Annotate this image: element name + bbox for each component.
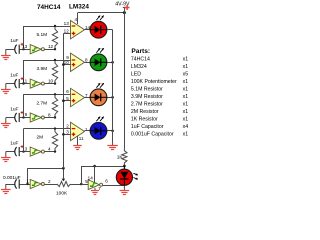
node (cathode bus junction)	[111, 61, 114, 64]
wire supply to 4V-9V node	[78, 12, 125, 14]
svg-text:13: 13	[64, 21, 70, 26]
ground (LED D5 cathode)	[123, 186, 125, 191]
potentiometer 100K	[57, 181, 71, 186]
svg-text:LED: LED	[131, 71, 141, 77]
capacitor C3 1uF	[15, 113, 17, 122]
wire C2 to inverter input node	[19, 83, 30, 85]
svg-text:13: 13	[22, 44, 28, 49]
svg-text:1: 1	[85, 127, 88, 132]
svg-text:3.9M: 3.9M	[37, 66, 48, 72]
node (resistor top, stage 4)	[54, 127, 56, 129]
LED D5 (flicker)	[123, 166, 125, 172]
svg-text:1uF: 1uF	[10, 107, 18, 113]
wire buffer output to LED cathode	[103, 185, 125, 187]
wire cathode bus (vertical)	[112, 30, 114, 143]
svg-text:10: 10	[48, 79, 54, 84]
svg-text:1uF Capacitor: 1uF Capacitor	[131, 124, 164, 130]
wire bus to stage5 riser	[28, 168, 64, 170]
op-amp U2a (LM324)	[71, 21, 85, 39]
svg-text:12: 12	[64, 29, 70, 34]
svg-text:1uF: 1uF	[10, 141, 18, 147]
inverter U1c buffer (74HC14 pins 5-6)	[88, 180, 99, 190]
wire ground to C1	[6, 49, 15, 51]
wiper arrow (100K pot)	[63, 168, 65, 178]
svg-text:x1: x1	[183, 86, 189, 92]
op-amp U2d (LM324)	[71, 122, 85, 140]
wire op-amp output to LED	[85, 130, 91, 132]
wire + input bus (vertical)	[63, 33, 65, 168]
inverter U1d (74HC14)	[30, 147, 41, 156]
wire riser cap node to top wire (stage 3)	[23, 94, 25, 117]
ground (stage 3 cap)	[5, 118, 7, 124]
svg-text:3.9M Resistor: 3.9M Resistor	[131, 94, 163, 100]
emission arrows (D5)	[133, 173, 137, 175]
inverter U1c (74HC14)	[30, 113, 41, 122]
wire riser buffer input to LED feed wire	[81, 166, 83, 184]
svg-text:9: 9	[25, 112, 28, 117]
wire ground to C4	[6, 151, 15, 153]
resistor R5 1K	[122, 148, 127, 167]
wire inverter output to resistor (stage 3)	[44, 117, 55, 119]
svg-text:1: 1	[26, 179, 29, 184]
LED D1	[90, 21, 107, 38]
wire ground to C2	[6, 83, 15, 85]
wire inverter output to resistor (stage 2)	[44, 83, 55, 85]
node (resistor top, stage 3)	[54, 93, 56, 95]
svg-text:2: 2	[66, 123, 69, 128]
node (stage 3 cap node)	[22, 116, 24, 118]
wire inverter output to resistor (stage 1)	[44, 49, 55, 51]
LED D2	[90, 54, 107, 71]
svg-text:LM324: LM324	[69, 4, 89, 11]
wire LED cathode to bus	[107, 29, 113, 31]
node (resistor bottom, stage 1)	[54, 48, 56, 50]
svg-text:x1: x1	[183, 64, 189, 70]
svg-text:Parts:: Parts:	[131, 48, 150, 55]
svg-text:0.001uF Capacitor: 0.001uF Capacitor	[131, 131, 174, 137]
wire top feedback (stage 1) to op-amp	[24, 26, 71, 28]
svg-text:1K: 1K	[117, 154, 124, 160]
wire C3 to inverter input node	[19, 117, 30, 119]
node (stage 4 cap node)	[22, 150, 24, 152]
svg-text:11: 11	[22, 78, 27, 83]
op-amp U2b (LM324)	[71, 53, 85, 71]
svg-text:5.1M Resistor: 5.1M Resistor	[131, 86, 163, 92]
svg-text:4: 4	[48, 147, 51, 152]
svg-text:x1: x1	[183, 79, 189, 85]
node (stage 2 cap node)	[22, 82, 24, 84]
svg-text:x1: x1	[183, 56, 189, 62]
svg-text:6: 6	[105, 179, 108, 184]
node (buffer input junction)	[80, 183, 83, 186]
svg-text:x1: x1	[183, 131, 189, 137]
ground (LED cathode bus)	[112, 143, 114, 146]
wire pin14 stub	[94, 166, 96, 182]
wire ground to C3	[6, 117, 15, 119]
inverter U1f (74HC14)	[30, 179, 41, 188]
wire buffer input	[81, 184, 88, 186]
wire pot right to buffer input	[71, 184, 82, 186]
capacitor C2 1uF	[15, 79, 17, 88]
inverter U1a (74HC14)	[30, 45, 41, 54]
svg-text:74HC14: 74HC14	[37, 4, 61, 11]
node (resistor bottom, stage 4)	[54, 150, 56, 152]
resistor R3 2.7M	[52, 94, 57, 117]
svg-text:x4: x4	[183, 124, 189, 130]
wire LED cathode to bus	[107, 130, 113, 132]
node (resistor top, stage 2)	[54, 59, 56, 61]
svg-text:100K: 100K	[56, 191, 68, 197]
plus mark (supply polarity)	[125, 7, 130, 9]
inverter U1b (74HC14)	[30, 79, 41, 88]
svg-text:5.1M: 5.1M	[37, 32, 48, 38]
svg-text:12: 12	[48, 44, 54, 49]
resistor R1 5.1M	[52, 26, 57, 49]
node (stage 1 cap node)	[22, 48, 24, 50]
svg-text:2M: 2M	[37, 135, 44, 141]
svg-text:3: 3	[66, 130, 69, 135]
svg-text:2: 2	[48, 179, 51, 184]
svg-text:x1: x1	[183, 116, 189, 122]
wire riser cap node to top wire (stage 2)	[23, 60, 25, 84]
node (resistor bottom, stage 2)	[54, 82, 56, 84]
ground (stage 4 cap)	[5, 152, 7, 158]
svg-text:100K Potentiometer: 100K Potentiometer	[131, 79, 177, 85]
svg-text:3: 3	[25, 146, 28, 151]
supply node 4V-9V	[123, 11, 126, 14]
node (stage5 input)	[26, 183, 28, 185]
wire ground to C5	[6, 184, 15, 186]
svg-text:x1: x1	[183, 101, 189, 107]
svg-text:2.7M Resistor: 2.7M Resistor	[131, 101, 163, 107]
svg-text:2.7M: 2.7M	[37, 100, 48, 106]
node (pin14 supply tap)	[93, 165, 96, 168]
wire op-amp output to LED	[85, 29, 91, 31]
svg-text:4: 4	[74, 17, 77, 22]
wire riser bus to stage5 input	[27, 168, 29, 184]
wire pin4 stub	[77, 13, 79, 24]
wire inverter output to resistor (stage 4)	[44, 151, 55, 153]
ground (stage 1 cap)	[5, 49, 7, 55]
emission arrows (D4)	[96, 117, 100, 122]
resistor R4 2M	[52, 129, 57, 152]
svg-text:x5: x5	[183, 71, 189, 77]
wire LED cathode to bus	[107, 97, 113, 99]
svg-text:1K Resistor: 1K Resistor	[131, 116, 158, 122]
svg-text:8: 8	[85, 58, 88, 63]
wire C1 to inverter input node	[19, 49, 30, 51]
svg-text:x1: x1	[183, 109, 189, 115]
wire riser cap node to top wire (stage 1)	[23, 26, 25, 49]
ground (LM324 pin 11)	[77, 136, 79, 146]
wire top feedback (stage 2) to op-amp	[24, 60, 71, 62]
node (bus junction)	[62, 99, 65, 102]
wire + input from bus	[63, 64, 70, 66]
wire top feedback (stage 3) to op-amp	[24, 94, 71, 96]
node (cathode bus junction)	[111, 96, 114, 99]
node (wiper / bus junction)	[62, 167, 65, 170]
node (resistor bottom, stage 3)	[54, 116, 56, 118]
resistor R2 3.9M	[52, 60, 57, 84]
node (resistor top, stage 1)	[54, 25, 56, 27]
emission arrows (D2)	[96, 48, 100, 53]
node (bus junction)	[62, 63, 65, 66]
svg-text:x1: x1	[183, 94, 189, 100]
LED D4	[90, 122, 107, 139]
wire C5 to inverter input	[19, 184, 30, 186]
emission arrows (D1)	[96, 16, 100, 21]
LED D3	[90, 89, 107, 106]
svg-text:11: 11	[79, 136, 84, 141]
capacitor C5 0.001uF	[15, 179, 17, 188]
node (bus junction)	[62, 133, 65, 136]
node (cathode bus junction)	[111, 130, 114, 133]
wire op-amp output to LED	[85, 62, 91, 64]
svg-text:2M Resistor: 2M Resistor	[131, 109, 159, 115]
svg-text:0.001uF: 0.001uF	[3, 175, 21, 181]
wire V+ rail (vertical)	[124, 13, 126, 148]
svg-text:LM324: LM324	[131, 64, 147, 70]
wire + input from bus	[63, 100, 70, 102]
wire LED cathode to bus	[107, 62, 113, 64]
op-amp U2c (LM324)	[71, 88, 85, 106]
wire + input from bus	[63, 134, 70, 136]
emission arrows (D3)	[96, 83, 100, 88]
wire LED feed (to 1K / LED anode)	[81, 166, 124, 168]
wire top feedback (stage 4) to op-amp	[24, 128, 71, 130]
wire C4 to inverter input node	[19, 151, 30, 153]
svg-text:6: 6	[66, 89, 69, 94]
node (LED anode / 1K junction)	[123, 165, 126, 168]
svg-text:8: 8	[48, 113, 51, 118]
svg-text:1uF: 1uF	[10, 73, 18, 79]
wire op-amp output to LED	[85, 97, 91, 99]
capacitor C4 1uF	[15, 147, 17, 156]
wire riser cap node to top wire (stage 4)	[23, 129, 25, 152]
ground (74HC14 pin 7)	[94, 188, 96, 191]
svg-text:74HC14: 74HC14	[131, 56, 150, 62]
wire inverter 2 output to potentiometer	[44, 184, 57, 186]
wire + input from bus	[63, 33, 70, 35]
ground (stage 2 cap)	[5, 84, 7, 90]
ground (stage 5 cap)	[5, 184, 7, 189]
svg-text:1uF: 1uF	[10, 38, 18, 44]
capacitor C1 1uF	[15, 45, 17, 54]
